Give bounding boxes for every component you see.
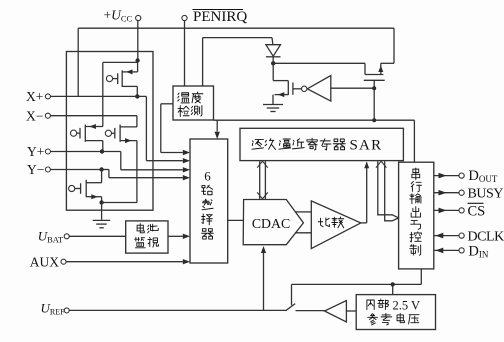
svg-text:CS: CS [468,203,486,219]
svg-text:PENIRQ: PENIRQ [193,9,247,25]
svg-text:CDAC: CDAC [252,216,290,231]
svg-text:2.5 V: 2.5 V [393,298,421,312]
svg-text:X−: X− [26,108,43,123]
svg-text:AUX: AUX [30,254,59,269]
svg-text:SAR: SAR [350,138,383,154]
svg-text:BUSY: BUSY [468,187,504,202]
svg-text:X+: X+ [26,89,43,104]
svg-text:6: 6 [204,169,211,184]
svg-text:Y+: Y+ [27,144,44,159]
svg-text:Y−: Y− [27,162,44,177]
